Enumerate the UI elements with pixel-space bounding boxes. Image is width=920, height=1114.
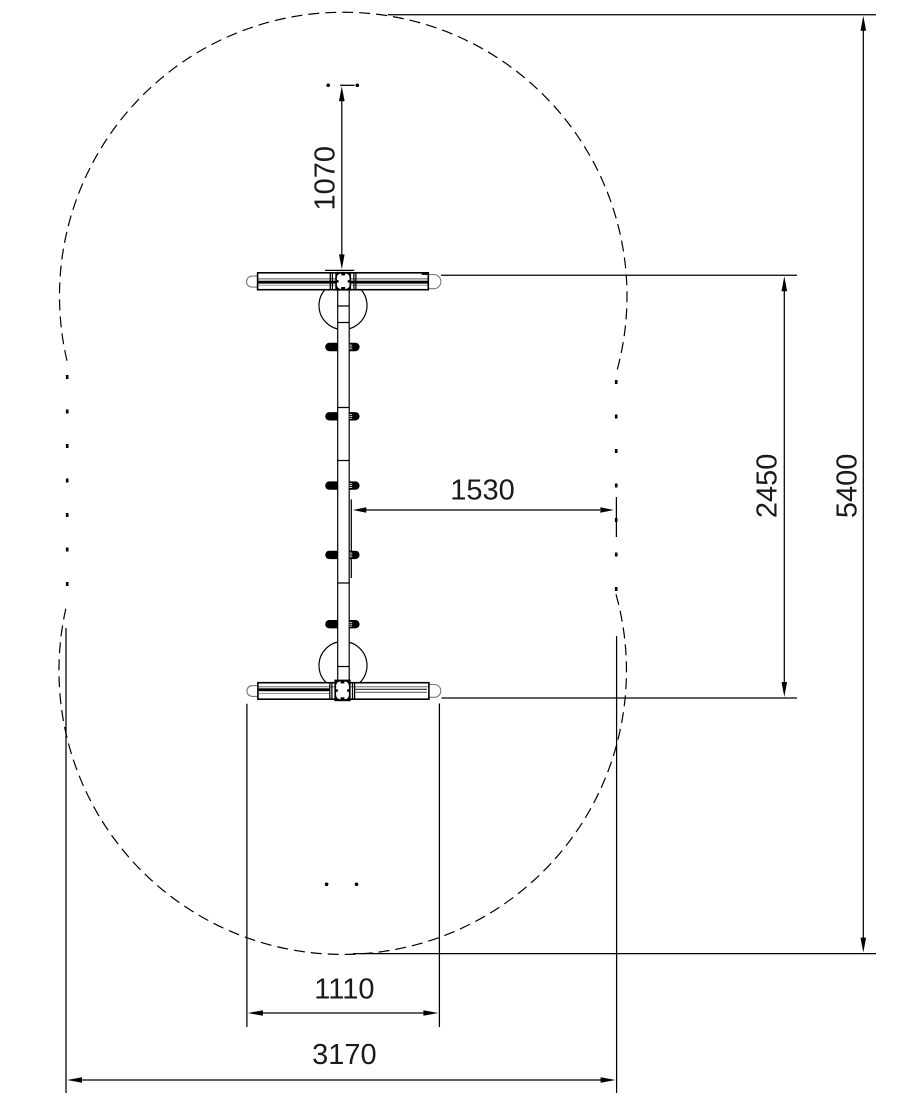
- bottom bar divider lines left: [329, 683, 331, 700]
- top swivel circle: [319, 282, 367, 330]
- bottom bar right double line: [355, 688, 427, 690]
- bottom bar left end cap: [247, 686, 258, 697]
- rung blobs row 1: [325, 343, 338, 351]
- top bar divider lines right: [353, 273, 355, 290]
- top bar weld mark right: [422, 273, 429, 275]
- top bar thick tube line: [258, 281, 427, 284]
- bottom bar divider lines right: [352, 683, 354, 700]
- dimension 5400 line: [862, 30, 864, 938]
- anchor dots in seat area: [325, 883, 329, 887]
- dimension 1070 line: [341, 100, 343, 256]
- top bar divider lines left: [329, 273, 331, 290]
- dimension 1070 top anchor tick: [340, 84, 354, 86]
- bottom bar thick tube line left: [259, 688, 330, 691]
- dimension 3170 line: [80, 1079, 603, 1081]
- bottom swivel circle: [319, 642, 367, 690]
- bottom bar lower gray line left: [259, 692, 330, 694]
- rung blobs row 5: [325, 620, 338, 628]
- top bar left end cap: [247, 276, 258, 287]
- extension line (2450 top ref): [441, 274, 797, 276]
- rung blobs row 4: [325, 551, 338, 559]
- safety zone top arc (dashed): [59, 12, 627, 374]
- bottom clamp: [334, 680, 350, 702]
- anchor dot left: [326, 84, 330, 88]
- tick above top bar: [325, 269, 354, 271]
- top bar inner thin line: [258, 278, 427, 280]
- svg-text:1070: 1070: [309, 146, 341, 211]
- dimension 1110 line: [260, 1012, 426, 1014]
- bottom bar body: [258, 683, 429, 700]
- top bar body: [258, 273, 429, 290]
- safety zone left side line (sparse dashed): [66, 363, 69, 603]
- central beam: [338, 291, 350, 683]
- svg-text:1110: 1110: [314, 974, 374, 1006]
- extension line (2450 bottom ref): [442, 697, 798, 699]
- dimension 3170 left ext line: [65, 628, 67, 1093]
- top bar right end cap: [428, 275, 441, 289]
- safety zone bottom arc (dashed): [59, 594, 627, 954]
- svg-text:5400: 5400: [832, 454, 864, 519]
- safety zone right side line (sparse dashed): [615, 374, 618, 594]
- svg-text:2450: 2450: [752, 454, 784, 519]
- extension line bottom (5400 ref): [353, 953, 876, 955]
- top clamp: [335, 272, 351, 291]
- svg-text:1530: 1530: [450, 475, 515, 507]
- rung blobs row 3: [325, 481, 338, 489]
- anchor dot right: [356, 84, 360, 88]
- dimension 1530 right ext line: [615, 497, 617, 537]
- top bar lower gray line: [258, 284, 427, 286]
- dimension 1530 line: [366, 509, 600, 511]
- rung blobs row 2: [325, 412, 338, 420]
- svg-text:3170: 3170: [312, 1039, 377, 1071]
- beam joint lines: [338, 305, 350, 307]
- bottom bar right end cap: [429, 685, 441, 698]
- dimension 3170 right ext line: [616, 636, 618, 1093]
- bottom bar inner thin line: [259, 686, 428, 688]
- dimension 1110 left ext line: [246, 704, 248, 1027]
- extension line top (5400 ref): [388, 14, 876, 16]
- dimension 2450 line: [783, 290, 785, 683]
- dimension 1110 right ext line: [438, 704, 440, 1028]
- dimension 1530 left ext line: [350, 499, 352, 578]
